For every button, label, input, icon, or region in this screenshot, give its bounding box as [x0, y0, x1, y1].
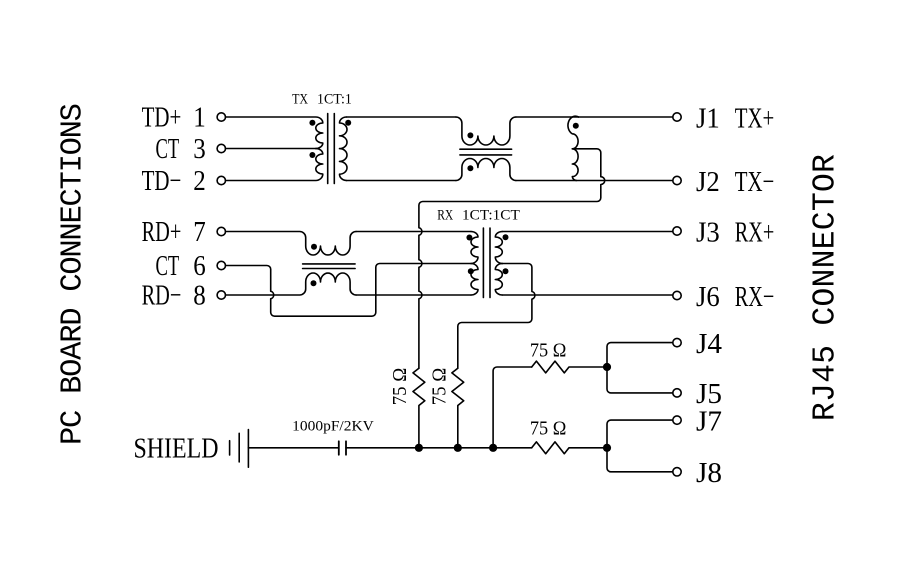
resistor 75 ohm horizontal 2 (on rail) — [532, 442, 607, 454]
wire CT 6 route: right, down with hop over RD-, right, up, right to T2 primary CT — [226, 264, 472, 317]
svg-text:2: 2 — [193, 165, 206, 197]
wire TX secondary top to choke — [347, 116, 456, 118]
wire RX choke to T2 primary top — [356, 231, 471, 233]
svg-text:CT: CT — [156, 133, 180, 165]
svg-text:1CT:1CT: 1CT:1CT — [462, 207, 520, 223]
svg-text:PC BOARD CONNECTIONS: PC BOARD CONNECTIONS — [57, 103, 91, 445]
terminal J5 circle — [673, 389, 681, 397]
transformer T2 RX primary top half winding — [471, 232, 478, 264]
dot RX choke top polarity — [311, 244, 317, 250]
wire J7 J8 split — [607, 420, 673, 472]
terminal J1 circle — [673, 113, 681, 121]
dot T2 primary top polarity — [466, 235, 472, 241]
svg-text:7: 7 — [193, 216, 206, 248]
svg-text:J8: J8 — [696, 457, 722, 489]
transformer T2 RX primary bottom half winding — [471, 264, 478, 296]
svg-text:RJ45 CONNECTOR: RJ45 CONNECTOR — [809, 154, 844, 421]
svg-text:SHIELD: SHIELD — [134, 432, 219, 464]
wire shield to capacitor — [248, 447, 338, 449]
transformer T2 core — [483, 228, 490, 298]
dot RX choke bottom polarity — [311, 280, 317, 286]
transformer T1 core — [328, 114, 335, 184]
wire choke to J2 — [516, 180, 673, 182]
terminal J7 circle — [673, 416, 681, 424]
junction dot rail at TX resistor — [415, 444, 423, 452]
terminal J2 circle — [673, 176, 681, 184]
dot choke L1 bottom polarity — [467, 165, 473, 171]
dot T2 secondary bottom polarity — [503, 268, 509, 274]
svg-text:RX: RX — [437, 207, 453, 223]
svg-text:J4: J4 — [696, 328, 722, 360]
dot T1 secondary polarity — [345, 120, 351, 126]
terminal J6 circle — [673, 291, 681, 299]
transformer T2 RX secondary top half winding — [495, 232, 502, 264]
svg-text:6: 6 — [193, 250, 206, 282]
transformer T1 TX primary bottom half winding with TD- lead — [226, 149, 323, 181]
resistor 75 ohm horizontal 1 — [532, 361, 607, 373]
svg-text:8: 8 — [193, 279, 206, 311]
terminal RD+ 7 circle — [217, 227, 225, 235]
wire rail feed up to resistor 1 — [493, 367, 532, 448]
svg-text:1CT:1: 1CT:1 — [317, 91, 352, 107]
wire TX center tap to resistor: right, down with hop over J2, left, down with hops — [419, 149, 605, 368]
wire RX choke to T2 primary bottom — [356, 294, 471, 296]
wire J4 J5 split — [607, 343, 673, 393]
wire choke to J1 — [516, 116, 673, 118]
svg-text:75 Ω: 75 Ω — [429, 368, 451, 406]
choke L1 top winding — [456, 117, 516, 145]
wire ground rail capacitor to resistor — [346, 447, 532, 449]
junction dot rail at RX resistor — [454, 444, 462, 452]
terminal J4 circle — [673, 338, 681, 346]
svg-text:J3: J3 — [696, 216, 720, 248]
wire CT 3 lead — [226, 148, 316, 150]
svg-text:CT: CT — [156, 250, 180, 282]
svg-text:TX−: TX− — [735, 166, 775, 198]
svg-text:J1: J1 — [696, 102, 720, 134]
svg-text:1000pF/2KV: 1000pF/2KV — [292, 419, 374, 435]
terminal CT 6 circle — [217, 261, 225, 269]
RX choke core — [303, 264, 356, 269]
svg-text:RD+: RD+ — [142, 216, 182, 248]
dot autotransformer polarity — [573, 123, 579, 129]
svg-text:J7: J7 — [696, 405, 722, 437]
terminal RD- 8 circle — [217, 291, 225, 299]
wire TX secondary bottom to choke — [347, 180, 456, 182]
SHIELD connector symbol — [230, 430, 249, 468]
RX choke top winding with RD+ lead — [226, 232, 357, 256]
junction dot at J4 J5 split — [603, 363, 611, 371]
terminal CT 3 circle — [217, 144, 225, 152]
svg-text:1: 1 — [193, 101, 206, 133]
terminal TD+ 1 circle — [217, 113, 225, 121]
transformer T1 TX secondary winding — [340, 117, 348, 181]
svg-text:J6: J6 — [696, 281, 720, 313]
autotransformer TX termination winding — [568, 116, 579, 180]
RX choke bottom winding with RD- lead — [226, 273, 357, 295]
terminal TD- 2 circle — [217, 176, 225, 184]
wire RX center tap route: right, down with hop over J6, left, down to resistor — [458, 264, 535, 369]
svg-text:TD−: TD− — [142, 165, 182, 197]
junction dot rail at feed — [489, 444, 497, 452]
svg-text:RX+: RX+ — [735, 216, 775, 248]
terminal J8 circle — [673, 468, 681, 476]
dot T1 primary bottom polarity — [309, 152, 315, 158]
svg-text:RX−: RX− — [735, 281, 775, 313]
dot choke L1 top polarity — [467, 132, 473, 138]
capacitor C1 1000pF/2KV plates — [339, 441, 346, 455]
svg-text:TX: TX — [292, 91, 308, 107]
svg-text:3: 3 — [193, 133, 206, 165]
choke L1 bottom winding — [456, 159, 516, 181]
svg-text:75 Ω: 75 Ω — [389, 368, 411, 406]
choke L1 core — [460, 149, 512, 155]
junction dot rail at J7 J8 split — [603, 444, 611, 452]
dot T2 primary bottom polarity — [468, 268, 474, 274]
svg-text:TX+: TX+ — [735, 102, 775, 134]
svg-text:RD−: RD− — [142, 279, 182, 311]
terminal J3 circle — [673, 227, 681, 235]
svg-text:75 Ω: 75 Ω — [530, 339, 567, 361]
svg-text:J2: J2 — [696, 166, 720, 198]
svg-text:TD+: TD+ — [142, 101, 182, 133]
transformer T2 RX secondary bottom half winding — [495, 264, 502, 296]
resistor 75 ohm vertical 2 — [452, 368, 464, 448]
transformer T1 TX primary top half winding with TD+ lead — [226, 117, 323, 149]
svg-text:75 Ω: 75 Ω — [530, 417, 567, 439]
wire T2 secondary bottom to J6 — [502, 294, 673, 296]
dot T1 primary top polarity — [309, 120, 315, 126]
wire T2 secondary top to J3 — [502, 231, 673, 233]
dot T2 secondary top polarity — [503, 234, 509, 240]
resistor 75 ohm vertical 1 — [413, 368, 425, 448]
